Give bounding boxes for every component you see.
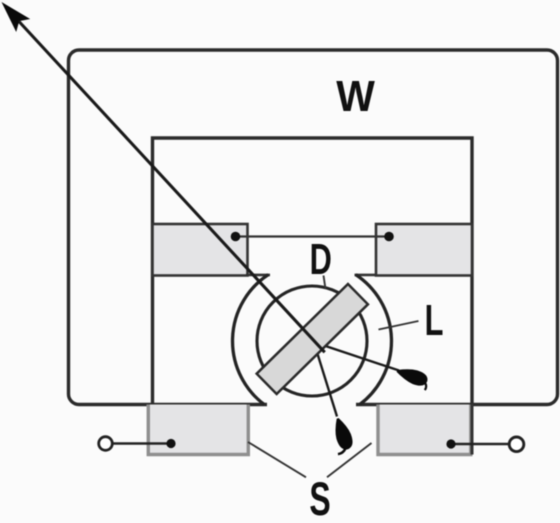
- leader line S left: [248, 442, 306, 477]
- counterweight blob right: [394, 364, 430, 390]
- svg-text:W: W: [336, 73, 375, 122]
- terminal left: [99, 437, 113, 451]
- label W: [336, 73, 375, 122]
- counterweight arm right: [312, 342, 399, 371]
- pole piece right: [376, 224, 472, 276]
- pivot dot left: [231, 232, 241, 242]
- coil D (bar): [257, 284, 368, 394]
- magnet yoke: [153, 138, 473, 406]
- housing W (outer rounded rectangle): [69, 50, 558, 405]
- yoke right edge over block: [471, 404, 474, 455]
- solder dot right: [446, 439, 455, 448]
- label L: [425, 297, 444, 346]
- label S: [309, 473, 330, 523]
- axle line between pivot dots: [236, 235, 390, 237]
- svg-text:D: D: [310, 236, 332, 285]
- pole face arc right: [356, 275, 392, 405]
- leader line S right: [327, 443, 372, 477]
- bottom gap eraser: [267, 396, 356, 462]
- svg-text:L: L: [425, 297, 444, 346]
- core circle: [257, 286, 367, 396]
- pointer needle: [19, 22, 325, 353]
- pointer arrowhead: [2, 2, 31, 32]
- leader line D: [324, 276, 326, 290]
- counterweight arm bottom: [314, 341, 338, 417]
- pole face arc left: [233, 275, 269, 405]
- label D: [310, 236, 332, 285]
- solder dot left: [166, 439, 175, 448]
- wire left: [110, 442, 171, 445]
- leader line L: [379, 321, 419, 330]
- pivot dot right: [384, 232, 394, 242]
- pole piece right bottom-edge extension: [355, 274, 378, 277]
- terminal right: [509, 437, 524, 452]
- pole piece left bottom-edge extension: [246, 274, 270, 277]
- spring block bottom-left: [147, 405, 251, 457]
- spring block bottom-right: [377, 405, 473, 457]
- counterweight blob bottom: [327, 416, 356, 454]
- svg-text:S: S: [309, 473, 330, 523]
- wire right: [451, 443, 510, 446]
- pole piece left: [153, 224, 248, 276]
